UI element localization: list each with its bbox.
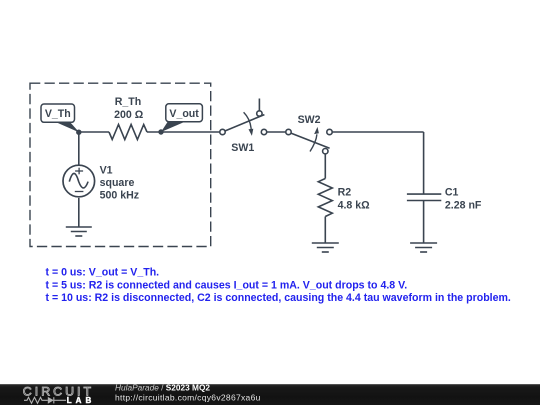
svg-text:http://circuitlab.com/cqy6v286: http://circuitlab.com/cqy6v2867xa6u	[115, 392, 261, 402]
svg-text:SW2: SW2	[298, 114, 321, 126]
svg-text:200 Ω: 200 Ω	[114, 109, 144, 121]
svg-text:t = 10 us: R2 is disconnected,: t = 10 us: R2 is disconnected, C2 is con…	[46, 292, 511, 304]
svg-text:LAB: LAB	[67, 396, 95, 405]
svg-text:t = 0 us: V_out = V_Th.: t = 0 us: V_out = V_Th.	[46, 267, 160, 279]
svg-text:V1: V1	[100, 165, 113, 177]
svg-text:t = 5 us: R2 is connected and: t = 5 us: R2 is connected and causes I_o…	[46, 279, 408, 291]
svg-text:500 kHz: 500 kHz	[100, 190, 139, 202]
svg-text:V_Th: V_Th	[45, 108, 71, 120]
svg-text:square: square	[100, 177, 135, 189]
svg-text:SW1: SW1	[231, 142, 254, 154]
svg-text:2.28 nF: 2.28 nF	[445, 199, 482, 211]
svg-text:V_out: V_out	[169, 108, 199, 120]
svg-text:R_Th: R_Th	[115, 96, 141, 108]
svg-text:HulaParade / S2023 MQ2: HulaParade / S2023 MQ2	[115, 383, 210, 393]
svg-text:R2: R2	[338, 187, 352, 199]
svg-text:C1: C1	[445, 187, 459, 199]
svg-text:4.8 kΩ: 4.8 kΩ	[338, 200, 371, 212]
